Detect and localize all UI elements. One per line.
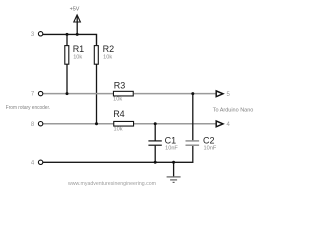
label R3 <box>114 81 126 91</box>
svg-text:10k: 10k <box>113 97 122 103</box>
supply label +5V <box>70 6 80 12</box>
svg-text:From rotary encoder.: From rotary encoder. <box>6 105 51 111</box>
capacitor C2 <box>186 141 200 145</box>
junction on top rail at R1 <box>66 33 69 36</box>
label R1 <box>73 44 85 54</box>
value 10nF of C2 <box>204 145 217 151</box>
wire node7 row left <box>43 93 113 95</box>
svg-text:+5V: +5V <box>70 6 80 12</box>
wire R2 bottom lead <box>96 64 98 123</box>
node 3 terminal circle <box>38 32 42 36</box>
wire R1 bottom lead <box>66 64 68 93</box>
junction ground rail at ground lead <box>172 161 175 164</box>
wire ground lead <box>173 162 175 176</box>
svg-text:10k: 10k <box>114 127 123 133</box>
junction node7 at R1 bottom <box>66 92 69 95</box>
svg-text:10nF: 10nF <box>165 145 178 151</box>
svg-text:R1: R1 <box>73 44 85 54</box>
pin 5 label <box>227 92 231 98</box>
value 10k of R1 <box>73 54 82 60</box>
pin 7 label <box>31 92 35 98</box>
svg-text:www.myadventuresinengineering.: www.myadventuresinengineering.com <box>67 181 156 187</box>
svg-text:R3: R3 <box>114 81 126 91</box>
junction ground rail at C1 bottom <box>154 161 157 164</box>
svg-text:10nF: 10nF <box>204 145 217 151</box>
wire C1 top lead <box>154 124 156 141</box>
wire top rail from node 3 to R2 corner <box>43 34 97 45</box>
label C2 <box>203 135 215 145</box>
junction node8 at R2 bottom <box>95 122 98 125</box>
pin 4 label <box>31 160 35 166</box>
junction on top rail at +5V <box>76 33 79 36</box>
svg-text:10k: 10k <box>103 54 112 60</box>
junction node8 at C1 top <box>154 122 157 125</box>
svg-text:R4: R4 <box>113 109 125 119</box>
wire node8 row <box>43 123 216 125</box>
value 10k of R2 <box>103 54 112 60</box>
pin 8 label <box>31 122 35 128</box>
value 10nF of C1 <box>165 145 178 151</box>
resistor R1 <box>65 46 69 65</box>
pin 3 label <box>31 32 35 38</box>
capacitor C1 <box>148 141 161 145</box>
node 8 terminal circle <box>38 122 42 126</box>
wire +5V lead <box>76 16 78 35</box>
ground <box>167 177 181 183</box>
label C1 <box>165 135 177 145</box>
arrow to pin 5 <box>216 91 223 97</box>
watermark url <box>67 181 156 187</box>
resistor R2 <box>94 46 98 65</box>
wire C1 bottom lead <box>154 146 156 163</box>
wire C2 top lead <box>192 94 194 141</box>
pin 4 arrow label <box>227 122 231 128</box>
junction node7 at C2 top <box>191 92 194 95</box>
svg-text:10k: 10k <box>73 54 82 60</box>
arrow to pin 4 <box>216 121 223 127</box>
svg-text:To Arduino Nano: To Arduino Nano <box>213 107 254 113</box>
label R4 <box>113 109 125 119</box>
wire R1 top lead <box>66 34 68 45</box>
resistor R3 <box>113 91 133 96</box>
node 4 terminal circle <box>38 160 42 164</box>
supply +5V symbol <box>74 15 81 22</box>
wire node4 ground rail <box>43 146 193 162</box>
resistor R4 <box>114 121 134 126</box>
value 10k of R3 <box>113 97 122 103</box>
net label To Arduino Nano <box>213 107 254 113</box>
wire node7 row right <box>134 93 216 95</box>
node 7 terminal circle <box>38 91 42 95</box>
net label From rotary encoder <box>6 105 51 111</box>
label R2 <box>103 44 115 54</box>
value 10k of R4 <box>114 127 123 133</box>
svg-text:R2: R2 <box>103 44 115 54</box>
svg-text:C2: C2 <box>203 135 215 145</box>
svg-text:C1: C1 <box>165 135 177 145</box>
